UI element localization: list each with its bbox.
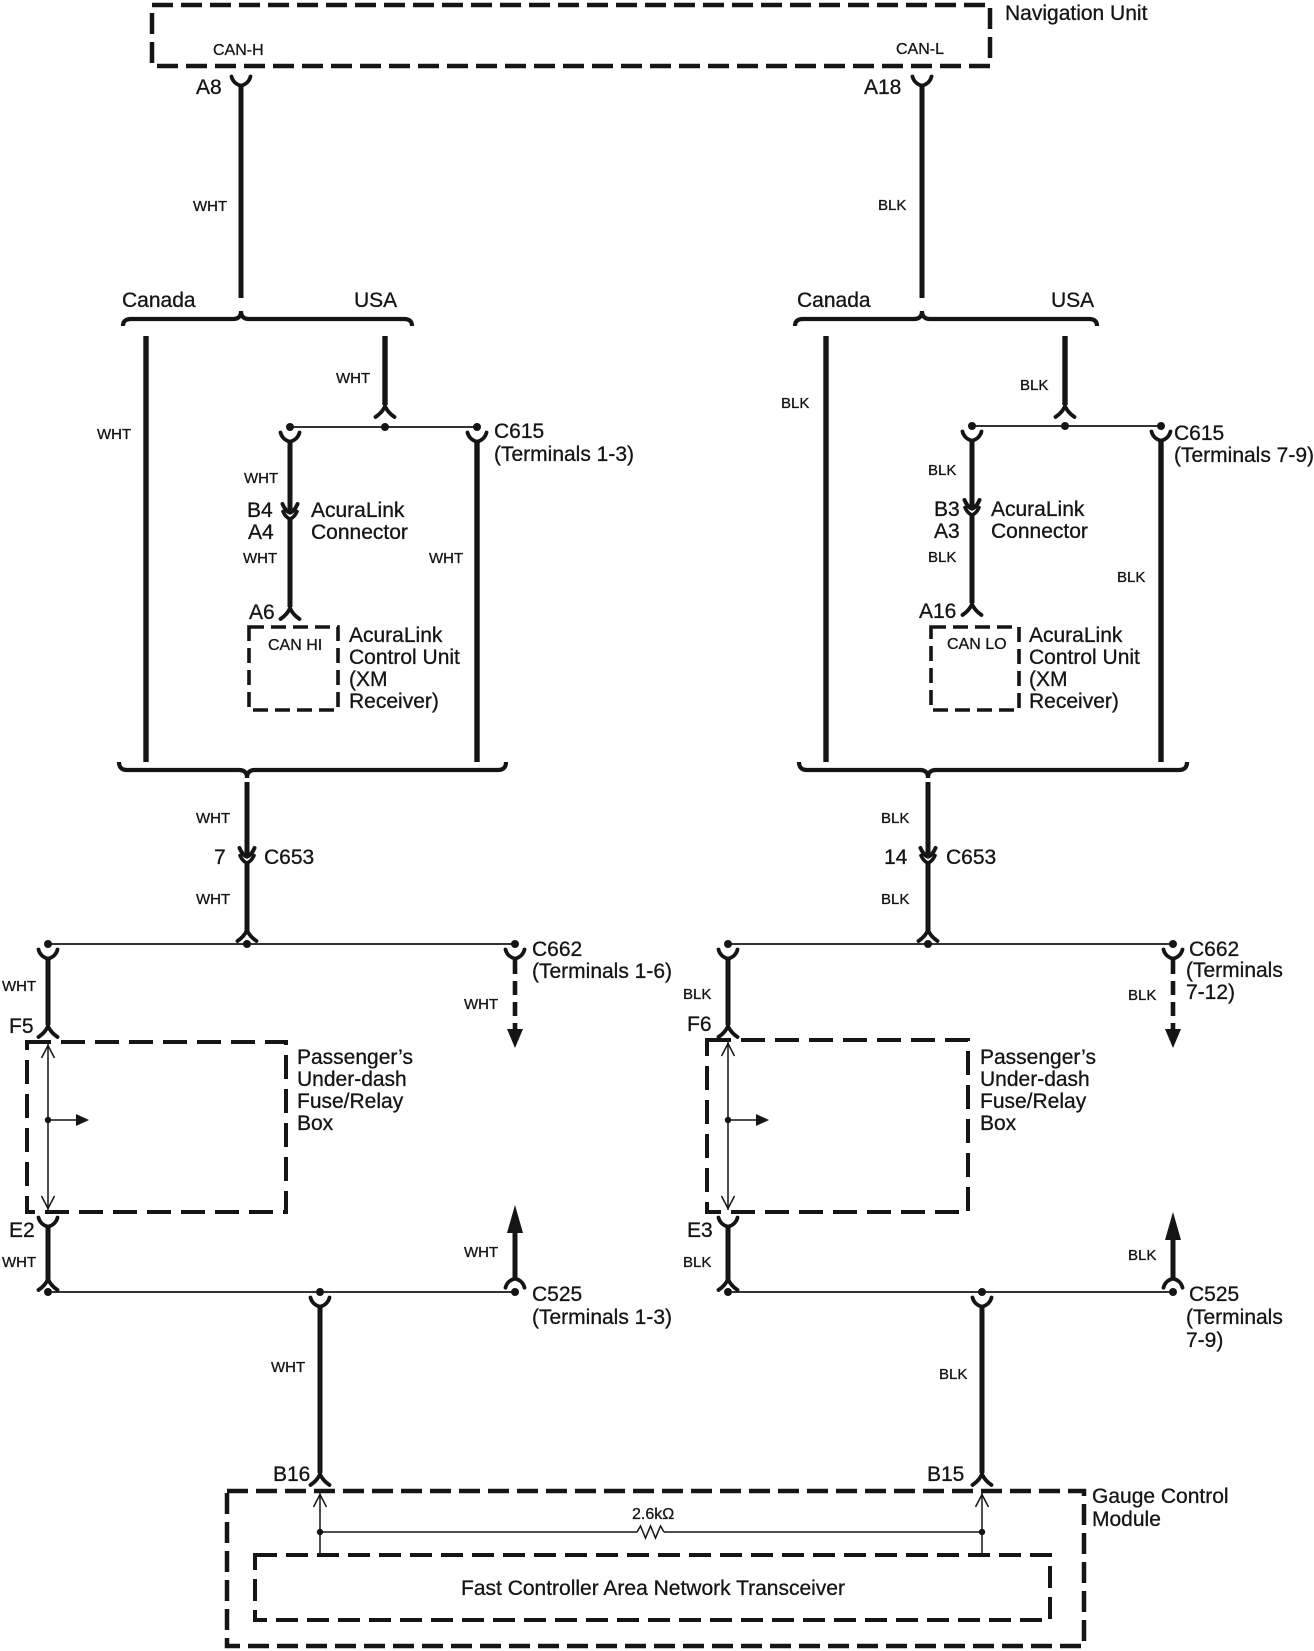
svg-text:CAN LO: CAN LO (947, 636, 1007, 653)
svg-text:(Terminals 1-6): (Terminals 1-6) (532, 960, 672, 983)
svg-text:WHT: WHT (243, 550, 277, 567)
label BLK (B15 wire) (939, 1366, 967, 1383)
label BLK (E3 wire) (683, 1254, 711, 1271)
svg-text:Passenger’s: Passenger’s (980, 1046, 1096, 1069)
svg-text:Gauge Control: Gauge Control (1092, 1485, 1229, 1508)
junction dot C662-3 (511, 940, 519, 948)
label BLK (B3 wire) (928, 462, 956, 479)
svg-text:Connector: Connector (991, 520, 1088, 543)
label fuse box left line3 (297, 1090, 404, 1113)
svg-text:B15: B15 (927, 1463, 964, 1486)
svg-text:A3: A3 (934, 520, 960, 543)
svg-text:BLK: BLK (939, 1366, 967, 1383)
dashed wire C662-3 down (WHT) (513, 960, 518, 1029)
label BLK (C662-12 arrow) (1128, 987, 1156, 1004)
wire C653 to C662 right (BLK) (926, 861, 931, 931)
wire Canada right (BLK) (823, 336, 828, 762)
internal node dot B16 (317, 1529, 323, 1535)
wire A8 to Canada/USA branch (WHT) (239, 85, 244, 298)
wire A3 to A16 (BLK) (970, 513, 975, 603)
connector line C525 right (terminals 7-9) (728, 1291, 1173, 1293)
internal lead B15 (thin) (981, 1493, 983, 1555)
label WHT (below C653 left) (196, 891, 230, 908)
svg-text:BLK: BLK (1020, 377, 1048, 394)
wire C525 to B15 (BLK) (980, 1306, 985, 1473)
wire A4 to A6 (WHT) (288, 517, 293, 607)
svg-text:Box: Box (980, 1112, 1017, 1135)
label AcuraLink Control Unit left line2 (349, 646, 460, 669)
svg-text:BLK: BLK (683, 986, 711, 1003)
label C653 left (264, 846, 314, 869)
label Navigation Unit (1005, 2, 1148, 25)
terminal under C615-1 (female) (281, 433, 300, 442)
terminal above C525-1 (male) (39, 1279, 58, 1290)
svg-text:WHT: WHT (464, 996, 498, 1013)
svg-text:(Terminals: (Terminals (1186, 959, 1283, 982)
label C662 terminals left (532, 960, 672, 983)
wire C615-9 down (BLK) (1158, 440, 1163, 762)
svg-text:Under-dash: Under-dash (297, 1068, 407, 1091)
label Connector (right) (991, 520, 1088, 543)
CAN LO box (AcuraLink control unit right) (931, 627, 1019, 710)
label Canada (left) (122, 289, 196, 312)
svg-text:Under-dash: Under-dash (980, 1068, 1090, 1091)
svg-text:Module: Module (1092, 1508, 1161, 1531)
terminal A18 (female) (913, 77, 932, 86)
svg-text:WHT: WHT (429, 550, 463, 567)
pin F5 (9, 1015, 34, 1038)
junction dot C525-9 (1169, 1288, 1177, 1296)
terminal under C662-3 (female) (506, 950, 525, 959)
fuse tap arrow right (728, 1114, 769, 1126)
label fuse box left line1 (297, 1046, 413, 1069)
svg-text:USA: USA (354, 289, 397, 312)
fuse arrowhead left bottom (42, 1196, 55, 1209)
label WHT (B4 wire) (244, 470, 278, 487)
label fuse box right line2 (980, 1068, 1090, 1091)
svg-text:Passenger’s: Passenger’s (297, 1046, 413, 1069)
svg-text:CAN-L: CAN-L (896, 41, 944, 58)
connector line C662 left (terminals 1-6) (48, 943, 515, 945)
svg-text:B16: B16 (273, 1463, 310, 1486)
svg-text:CAN-H: CAN-H (213, 42, 264, 59)
arrowhead C662-12 down (1165, 1029, 1181, 1048)
label BLK (A18 wire) (878, 197, 906, 214)
junction dot C525-3 (511, 1288, 519, 1296)
terminating wire left segment (320, 1531, 637, 1533)
wire A18 to Canada/USA branch (BLK) (920, 85, 925, 298)
label BLK (C525 right arrow) (1128, 1247, 1156, 1264)
label WHT (above C653 left) (196, 810, 230, 827)
connector C653 left (inline pair) (240, 848, 255, 863)
svg-text:A6: A6 (249, 601, 275, 624)
terminal F5 (male) (39, 1026, 58, 1037)
svg-text:BLK: BLK (878, 197, 906, 214)
pin B3 (934, 498, 960, 521)
junction dot C662-12 (1169, 940, 1177, 948)
svg-text:E3: E3 (687, 1219, 713, 1242)
navigation unit box (152, 5, 990, 66)
label Fast Controller Area Network Transceiver (461, 1577, 845, 1600)
node CAN HI (268, 637, 322, 654)
fuse box left (passenger's under-dash) (27, 1042, 286, 1212)
svg-text:WHT: WHT (464, 1244, 498, 1261)
pin A3 (934, 520, 960, 543)
internal arrowhead B15 (976, 1495, 989, 1508)
wire C662 to F6 (BLK) (726, 958, 731, 1025)
terminal under C662-7 (female) (719, 950, 738, 959)
svg-text:Control Unit: Control Unit (349, 646, 460, 669)
label fuse box right line1 (980, 1046, 1096, 1069)
label WHT (C525 left arrow) (464, 1244, 498, 1261)
svg-text:Fuse/Relay: Fuse/Relay (297, 1090, 404, 1113)
fuse tap dot left (45, 1117, 51, 1123)
svg-text:B3: B3 (934, 498, 960, 521)
terminal under C615-7 (female) (963, 432, 982, 441)
svg-text:7-12): 7-12) (1186, 981, 1235, 1004)
terminal under C662-1 (female) (39, 950, 58, 959)
junction dot C615-8 (1061, 422, 1069, 430)
wire brace to C653 right (BLK) (926, 782, 931, 855)
connector line C615 left (terminals 1-3) (290, 426, 477, 428)
svg-text:AcuraLink: AcuraLink (349, 624, 443, 647)
svg-text:BLK: BLK (881, 810, 909, 827)
pin A8 (196, 76, 222, 99)
terminal F6 (male) (719, 1026, 738, 1037)
terminal above C525-7 (male) (719, 1279, 738, 1290)
label C653 right (946, 846, 996, 869)
wire USA right (BLK) (1062, 336, 1067, 405)
pin F6 (687, 1013, 712, 1036)
connector line C662 right (terminals 7-12) (728, 943, 1173, 945)
pin 14 (C653 right) (884, 846, 908, 869)
terminal under C525-8 (female) (973, 1298, 992, 1307)
label Gauge Control (1092, 1485, 1229, 1508)
svg-text:BLK: BLK (1117, 569, 1145, 586)
internal lead B16 (thin) (319, 1493, 321, 1555)
svg-text:(XM: (XM (1029, 668, 1068, 691)
svg-text:C615: C615 (494, 420, 544, 443)
terminal C525-9 (female down) (1164, 1279, 1183, 1288)
fast CAN transceiver box (255, 1555, 1050, 1620)
svg-text:Box: Box (297, 1112, 334, 1135)
wire E2 to C525 (WHT) (46, 1226, 51, 1279)
svg-text:C662: C662 (1189, 938, 1239, 961)
node CAN-L (896, 41, 944, 58)
branch brace right (Canada/USA) (795, 311, 1097, 326)
label fuse box right line4 (980, 1112, 1017, 1135)
label WHT (E2 wire) (2, 1254, 36, 1271)
pin E2 (9, 1219, 35, 1242)
wire brace to C653 left (WHT) (245, 782, 250, 855)
svg-text:7-9): 7-9) (1186, 1329, 1223, 1352)
junction dot C615-2 (381, 423, 389, 431)
svg-text:BLK: BLK (928, 549, 956, 566)
svg-text:2.6kΩ: 2.6kΩ (632, 1506, 674, 1523)
terminal above C662 right (male) (919, 930, 938, 941)
junction dot C662-2 (243, 940, 251, 948)
svg-text:Fast Controller Area Network T: Fast Controller Area Network Transceiver (461, 1577, 845, 1600)
terminal B16 (male) (311, 1474, 330, 1485)
label Canada (right) (797, 289, 871, 312)
label WHT (C662-3 arrow) (464, 996, 498, 1013)
svg-text:(XM: (XM (349, 668, 388, 691)
label C525 right (1189, 1283, 1239, 1306)
branch brace left (Canada/USA) (123, 311, 412, 326)
label C615 right (1174, 422, 1224, 445)
svg-text:BLK: BLK (928, 462, 956, 479)
svg-text:(Terminals 1-3): (Terminals 1-3) (494, 443, 634, 466)
wire Canada left (WHT) (143, 336, 148, 762)
wire C615-3 down (WHT) (474, 441, 479, 762)
svg-text:Connector: Connector (311, 521, 408, 544)
label WHT (F5 wire) (2, 978, 36, 995)
node CAN LO (947, 636, 1007, 653)
label AcuraLink Control Unit right line2 (1029, 646, 1140, 669)
label WHT (C615-3 wire) (429, 550, 463, 567)
terminal under C615-9 (female) (1152, 432, 1171, 441)
junction dot C662-8 (924, 940, 932, 948)
svg-text:(Terminals 7-9): (Terminals 7-9) (1174, 444, 1314, 467)
terminal A6 (male) (281, 608, 300, 619)
terminal E3 (female) (719, 1218, 738, 1227)
svg-text:WHT: WHT (97, 426, 131, 443)
fuse element right (vertical path) (727, 1042, 729, 1210)
terminal USA right (male) (1056, 406, 1075, 417)
label C525 left (532, 1283, 582, 1306)
wire C615 to B4 (WHT) (288, 441, 293, 511)
junction dot C525-7 (724, 1288, 732, 1296)
svg-text:F6: F6 (687, 1013, 712, 1036)
svg-text:BLK: BLK (1128, 1247, 1156, 1264)
CAN HI box (AcuraLink control unit left) (249, 627, 338, 710)
label BLK (A16 wire) (928, 549, 956, 566)
label AcuraLink (connector left) (311, 499, 405, 522)
merge brace right (799, 762, 1187, 778)
svg-text:14: 14 (884, 846, 908, 869)
label AcuraLink Control Unit right line3 (1029, 668, 1068, 691)
pin A16 (919, 600, 956, 623)
AcuraLink connector left (inline pair) (283, 504, 298, 519)
terminating wire right segment (664, 1531, 982, 1533)
pin B15 (927, 1463, 964, 1486)
junction dot C525-2 (316, 1288, 324, 1296)
label BLK (USA right wire) (1020, 377, 1048, 394)
terminal under C662-12 (female) (1164, 950, 1183, 959)
terminal USA left (male) (376, 406, 395, 417)
label AcuraLink Control Unit right line4 (1029, 690, 1119, 713)
svg-text:7: 7 (214, 846, 226, 869)
internal arrowhead B16 (314, 1495, 327, 1508)
svg-text:BLK: BLK (1128, 987, 1156, 1004)
svg-text:AcuraLink: AcuraLink (1029, 624, 1123, 647)
wire C615 to B3 (BLK) (970, 440, 975, 507)
label BLK (Canada right wire) (781, 395, 809, 412)
label WHT (A8 wire) (193, 198, 227, 215)
label C525 terminals right line2 (1186, 1329, 1223, 1352)
junction dot C662-7 (724, 940, 732, 948)
fuse arrowhead left top (42, 1046, 55, 1059)
label fuse box left line4 (297, 1112, 334, 1135)
svg-text:BLK: BLK (881, 891, 909, 908)
label AcuraLink Control Unit left line1 (349, 624, 443, 647)
svg-text:(Terminals 1-3): (Terminals 1-3) (532, 1306, 672, 1329)
label AcuraLink Control Unit right line1 (1029, 624, 1123, 647)
svg-text:WHT: WHT (196, 891, 230, 908)
connector line C525 left (terminals 1-3) (48, 1291, 515, 1293)
svg-text:C662: C662 (532, 938, 582, 961)
terminal A16 (male) (963, 604, 982, 615)
svg-text:WHT: WHT (2, 978, 36, 995)
terminal E2 (female) (39, 1218, 58, 1227)
svg-text:A16: A16 (919, 600, 956, 623)
label C662 terminals right line2 (1186, 981, 1235, 1004)
label Connector (left) (311, 521, 408, 544)
label C662 left (532, 938, 582, 961)
label USA (left) (354, 289, 397, 312)
label BLK (below C653 right) (881, 891, 909, 908)
label C615 left (494, 420, 544, 443)
dashed wire C662-12 down (BLK) (1171, 960, 1176, 1029)
resistor 2.6k ohm (637, 1526, 664, 1538)
svg-text:Canada: Canada (122, 289, 196, 312)
svg-text:WHT: WHT (196, 810, 230, 827)
merge brace left (119, 762, 506, 778)
connector C653 right (inline pair) (921, 848, 936, 863)
terminal under C615-3 (female) (468, 433, 487, 442)
label AcuraLink (connector right) (991, 498, 1085, 521)
connector line C615 right (terminals 7-9) (972, 425, 1161, 427)
node CAN-H (213, 42, 264, 59)
junction dot C615-3 (473, 423, 481, 431)
pin B16 (273, 1463, 310, 1486)
label WHT (A6 wire) (243, 550, 277, 567)
svg-text:USA: USA (1051, 289, 1094, 312)
svg-text:Control Unit: Control Unit (1029, 646, 1140, 669)
wire USA left (WHT) (382, 336, 387, 405)
internal node dot B15 (979, 1529, 985, 1535)
arrowhead C662-3 down (507, 1029, 523, 1048)
label C662 right (1189, 938, 1239, 961)
svg-text:WHT: WHT (2, 1254, 36, 1271)
label C525 terminals right line1 (1186, 1306, 1283, 1329)
svg-text:F5: F5 (9, 1015, 34, 1038)
terminal C525-3 (female down) (506, 1279, 525, 1288)
svg-text:C653: C653 (264, 846, 314, 869)
svg-text:C653: C653 (946, 846, 996, 869)
fuse arrowhead right top (722, 1044, 735, 1057)
fuse arrowhead right bottom (722, 1196, 735, 1209)
pin B4 (247, 499, 273, 522)
terminal above C662 left (male) (238, 930, 257, 941)
label fuse box left line2 (297, 1068, 407, 1091)
label 2.6k ohm (632, 1506, 674, 1523)
fuse tap dot right (725, 1117, 731, 1123)
label AcuraLink Control Unit left line4 (349, 690, 439, 713)
svg-text:Canada: Canada (797, 289, 871, 312)
arrow up C525 left (WHT) (507, 1205, 523, 1278)
label WHT (USA left wire) (336, 370, 370, 387)
arrow up C525 right (BLK) (1165, 1212, 1181, 1278)
junction dot C615-9 (1157, 422, 1165, 430)
svg-text:A8: A8 (196, 76, 222, 99)
wire E3 to C525 (BLK) (726, 1226, 731, 1279)
svg-text:AcuraLink: AcuraLink (991, 498, 1085, 521)
svg-text:C525: C525 (532, 1283, 582, 1306)
svg-text:Receiver): Receiver) (349, 690, 439, 713)
svg-text:(Terminals: (Terminals (1186, 1306, 1283, 1329)
svg-text:B4: B4 (247, 499, 273, 522)
label WHT (Canada left wire) (97, 426, 131, 443)
svg-text:WHT: WHT (336, 370, 370, 387)
svg-text:Receiver): Receiver) (1029, 690, 1119, 713)
label C525 terminals left (532, 1306, 672, 1329)
wire C662 to F5 (WHT) (46, 958, 51, 1025)
svg-text:WHT: WHT (271, 1359, 305, 1376)
svg-text:E2: E2 (9, 1219, 35, 1242)
fuse tap arrow left (48, 1114, 89, 1126)
label Module (1092, 1508, 1161, 1531)
gauge control module box (227, 1491, 1084, 1646)
svg-text:WHT: WHT (244, 470, 278, 487)
svg-text:A4: A4 (248, 521, 274, 544)
label fuse box right line3 (980, 1090, 1087, 1113)
label USA (right) (1051, 289, 1094, 312)
label WHT (B16 wire) (271, 1359, 305, 1376)
svg-text:A18: A18 (864, 76, 901, 99)
svg-text:WHT: WHT (193, 198, 227, 215)
AcuraLink connector right (inline pair) (965, 500, 980, 515)
label BLK (F6 wire) (683, 986, 711, 1003)
junction dot C662-1 (44, 940, 52, 948)
junction dot C525-1 (44, 1288, 52, 1296)
pin A4 (248, 521, 274, 544)
junction dot C525-8 (978, 1288, 986, 1296)
svg-text:C525: C525 (1189, 1283, 1239, 1306)
terminal under C525-2 (female) (311, 1298, 330, 1307)
fuse element left (vertical path) (47, 1044, 49, 1210)
label AcuraLink Control Unit left line3 (349, 668, 388, 691)
wire C525 to B16 (WHT) (318, 1306, 323, 1473)
junction dot C615-7 (968, 422, 976, 430)
label C662 terminals right line1 (1186, 959, 1283, 982)
svg-text:C615: C615 (1174, 422, 1224, 445)
svg-text:CAN HI: CAN HI (268, 637, 322, 654)
label C615 terminals left (494, 443, 634, 466)
fuse box right (passenger's under-dash) (707, 1040, 968, 1212)
pin A6 (249, 601, 275, 624)
svg-text:BLK: BLK (683, 1254, 711, 1271)
junction dot C615-1 (286, 423, 294, 431)
label BLK (C615-9 wire) (1117, 569, 1145, 586)
svg-text:AcuraLink: AcuraLink (311, 499, 405, 522)
svg-text:Fuse/Relay: Fuse/Relay (980, 1090, 1087, 1113)
terminal A8 (female) (232, 77, 251, 86)
svg-text:BLK: BLK (781, 395, 809, 412)
label C615 terminals right (1174, 444, 1314, 467)
pin A18 (864, 76, 901, 99)
pin E3 (687, 1219, 713, 1242)
terminal B15 (male) (973, 1474, 992, 1485)
svg-text:Navigation Unit: Navigation Unit (1005, 2, 1148, 25)
wire C653 to C662 left (WHT) (245, 861, 250, 931)
label BLK (above C653 right) (881, 810, 909, 827)
pin 7 (C653 left) (214, 846, 226, 869)
